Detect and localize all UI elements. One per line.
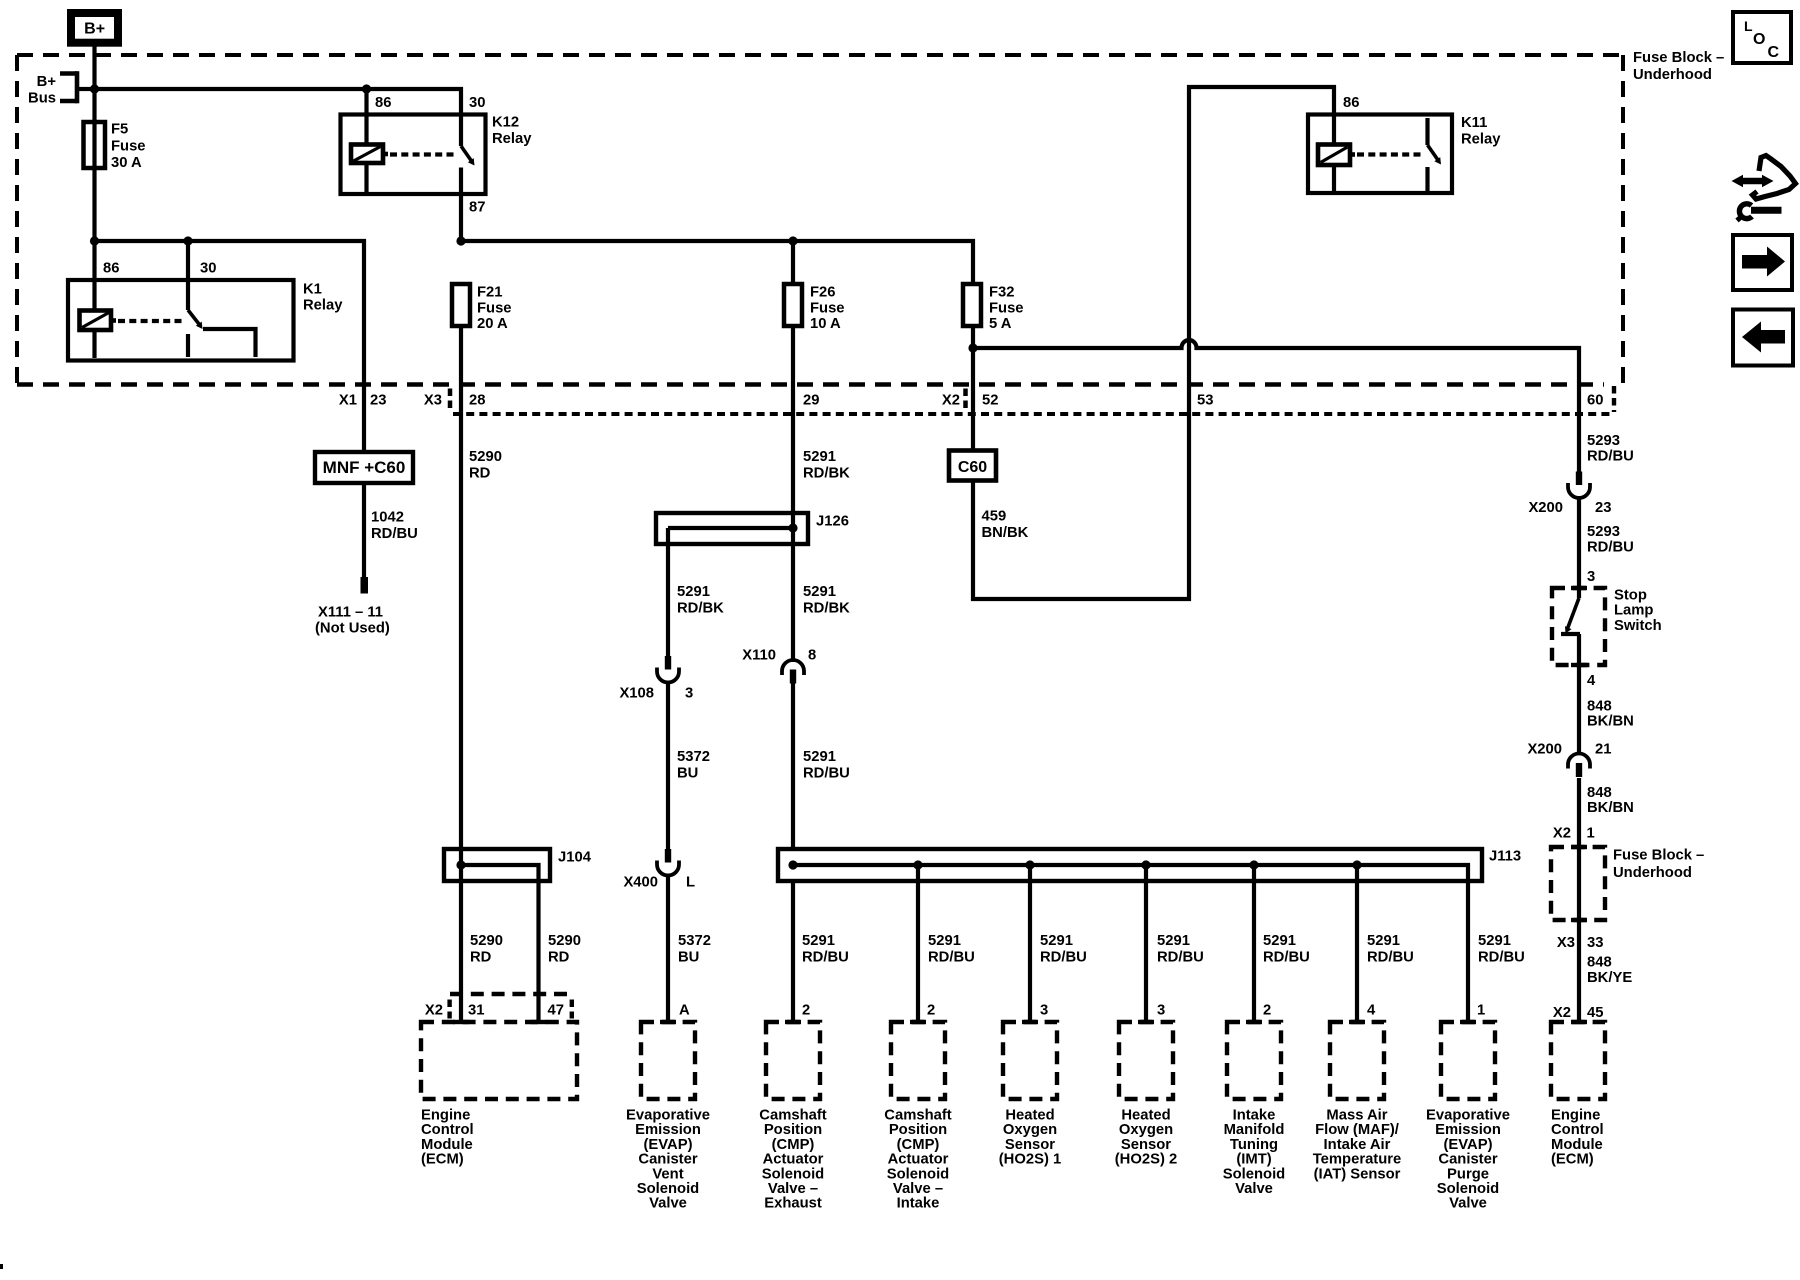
wire J113 to CMP exhaust valve xyxy=(791,881,795,1022)
junction F32 branch to right feed xyxy=(968,343,977,352)
svg-text:Flow (MAF)/: Flow (MAF)/ xyxy=(1315,1122,1399,1138)
svg-text:20 A: 20 A xyxy=(477,316,508,332)
pin 3 label stop lamp switch xyxy=(1587,569,1595,585)
label 5372 BU upper xyxy=(677,749,710,781)
label CMP actuator solenoid valve intake xyxy=(884,1108,951,1212)
svg-text:Fuse: Fuse xyxy=(810,300,845,316)
svg-text:47: 47 xyxy=(548,1003,564,1019)
svg-text:(IAT) Sensor: (IAT) Sensor xyxy=(1314,1166,1401,1182)
svg-text:52: 52 xyxy=(982,393,998,409)
svg-text:BK/BN: BK/BN xyxy=(1587,714,1634,730)
svg-text:L: L xyxy=(1744,18,1753,34)
svg-text:(ECM): (ECM) xyxy=(1551,1152,1594,1168)
icon arrow right box xyxy=(1733,235,1792,290)
svg-text:Camshaft: Camshaft xyxy=(884,1108,951,1124)
pin 30 label K1 xyxy=(200,261,216,277)
splice pack J104 xyxy=(444,849,592,881)
svg-text:Lamp: Lamp xyxy=(1614,603,1653,619)
svg-text:RD: RD xyxy=(548,949,570,965)
relay K11 dashed link xyxy=(1357,152,1423,156)
relay K11 switch xyxy=(1428,118,1442,192)
wire J126 internal bus xyxy=(668,526,793,530)
page speck artifact bottom left xyxy=(0,1264,3,1269)
pin 2 label CMP exhaust xyxy=(802,1003,810,1019)
icon wrench with double arrow xyxy=(1732,156,1796,221)
svg-text:5290: 5290 xyxy=(548,933,581,949)
label K11 Relay xyxy=(1461,115,1501,147)
terminal 53 label xyxy=(1197,393,1213,409)
svg-text:RD/BU: RD/BU xyxy=(802,949,849,965)
svg-text:Position: Position xyxy=(764,1122,822,1138)
valve EVAP canister purge solenoid box xyxy=(1441,1020,1495,1099)
svg-text:Control: Control xyxy=(1551,1122,1604,1138)
svg-text:Underhood: Underhood xyxy=(1633,67,1712,83)
junction fuse bus at F21 xyxy=(456,236,465,245)
svg-text:3: 3 xyxy=(685,686,693,702)
svg-text:Module: Module xyxy=(1551,1137,1603,1153)
label Fuse Block - Underhood right xyxy=(1613,848,1704,882)
pin 30 label K12 xyxy=(469,95,485,111)
svg-text:45: 45 xyxy=(1587,1005,1603,1021)
label 848 BK/BN upper xyxy=(1587,699,1634,730)
wire F21 to J104 and ECM pin 31 xyxy=(459,326,463,1022)
svg-text:RD/BK: RD/BK xyxy=(803,465,850,481)
sensor HO2S2 box xyxy=(1119,1020,1173,1099)
svg-text:Valve: Valve xyxy=(1449,1196,1487,1212)
label 5293 RD/BU lower xyxy=(1587,524,1634,556)
svg-text:BK/YE: BK/YE xyxy=(1587,970,1632,986)
svg-text:Control: Control xyxy=(421,1122,474,1138)
svg-text:3: 3 xyxy=(1040,1003,1048,1019)
node B+ Bus bracket xyxy=(28,71,93,106)
svg-text:BN/BK: BN/BK xyxy=(982,525,1029,541)
junction J113 at MAF branch xyxy=(1352,860,1361,869)
svg-text:5291: 5291 xyxy=(928,933,961,949)
junction J113 at CMP intake branch xyxy=(913,860,922,869)
pin 3 label HO2S2 xyxy=(1157,1003,1165,1019)
wire F26 to J126 xyxy=(791,326,795,513)
svg-text:X3: X3 xyxy=(1557,935,1575,951)
svg-text:33: 33 xyxy=(1587,935,1603,951)
svg-text:Solenoid: Solenoid xyxy=(762,1166,824,1182)
relay K1 box xyxy=(68,280,294,361)
junction F5 bus at K1 pin 30 xyxy=(183,236,192,245)
svg-text:87: 87 xyxy=(469,200,485,216)
svg-text:Evaporative: Evaporative xyxy=(626,1108,710,1124)
svg-text:Actuator: Actuator xyxy=(888,1152,949,1168)
label 5291 RD/BK col2 xyxy=(803,584,850,616)
fuse block - underhood bottom connector row dashed line xyxy=(17,382,1604,386)
svg-text:F5: F5 xyxy=(111,122,128,138)
svg-text:10 A: 10 A xyxy=(810,316,841,332)
svg-text:Canister: Canister xyxy=(638,1152,697,1168)
terminal X2 label ECM xyxy=(425,1003,443,1019)
wire F32 feed to terminal 60 with hop over 459 wire xyxy=(973,340,1579,472)
junction J126 at 5291 wire xyxy=(788,523,797,532)
label K1 Relay xyxy=(303,282,343,314)
svg-text:Valve –: Valve – xyxy=(768,1181,818,1197)
terminal X2 label xyxy=(942,393,960,409)
wire J126 through xyxy=(791,513,795,544)
relay K1 switch blade xyxy=(188,310,203,329)
svg-text:5293: 5293 xyxy=(1587,433,1620,449)
svg-text:RD/BK: RD/BK xyxy=(803,600,850,616)
svg-text:86: 86 xyxy=(103,261,119,277)
svg-text:3: 3 xyxy=(1157,1003,1165,1019)
switch stop lamp xyxy=(1552,586,1662,752)
icon arrow left box xyxy=(1733,310,1793,366)
relay K11 coil xyxy=(1318,145,1355,166)
pin 1 label EVAP purge xyxy=(1477,1003,1485,1019)
svg-text:A: A xyxy=(679,1003,690,1019)
svg-text:848: 848 xyxy=(1587,699,1612,715)
svg-text:F26: F26 xyxy=(810,285,836,301)
wire F32 to C60 xyxy=(971,326,975,451)
wire 5372 BU X400 to EVAP vent valve xyxy=(666,874,670,1023)
svg-text:Switch: Switch xyxy=(1614,618,1662,634)
fuse block - underhood connector row dotted line xyxy=(453,412,1613,416)
svg-text:(CMP): (CMP) xyxy=(897,1137,940,1153)
relay K1 dashed link xyxy=(118,319,184,323)
wire J126 to X108 xyxy=(666,528,670,657)
svg-text:5 A: 5 A xyxy=(989,316,1012,332)
svg-text:23: 23 xyxy=(370,393,386,409)
connector C60 xyxy=(949,451,996,481)
relay K1 switch output xyxy=(188,329,256,357)
svg-text:60: 60 xyxy=(1587,393,1603,409)
svg-text:Fuse: Fuse xyxy=(989,300,1024,316)
relay K12 dashed link xyxy=(390,152,456,156)
svg-text:X200: X200 xyxy=(1528,500,1563,516)
label 5293 RD/BU upper xyxy=(1587,433,1634,465)
svg-text:Tuning: Tuning xyxy=(1230,1137,1278,1153)
relay K1 pin 30 wire xyxy=(186,241,190,310)
pin 4 label stop lamp switch xyxy=(1587,673,1596,689)
svg-text:5291: 5291 xyxy=(803,584,836,600)
terminal X3 label xyxy=(424,393,442,409)
svg-text:RD: RD xyxy=(470,949,492,965)
svg-text:RD/BU: RD/BU xyxy=(1587,540,1634,556)
wire J104 internal bus to pin 47 drop xyxy=(461,865,539,1022)
svg-text:Solenoid: Solenoid xyxy=(1223,1166,1285,1182)
svg-text:459: 459 xyxy=(982,509,1007,525)
label Fuse Block - Underhood xyxy=(1633,50,1724,83)
svg-text:X2: X2 xyxy=(1553,826,1571,842)
svg-text:86: 86 xyxy=(1343,95,1359,111)
svg-text:(Not Used): (Not Used) xyxy=(315,621,390,637)
svg-text:Sensor: Sensor xyxy=(1005,1137,1055,1153)
fuse F21 20 A xyxy=(452,284,512,332)
svg-text:5291: 5291 xyxy=(802,933,835,949)
label 1042 RD/BU xyxy=(371,510,418,542)
valve CMP actuator exhaust box xyxy=(766,1020,820,1099)
pin 2 label IMT xyxy=(1263,1003,1271,1019)
svg-text:RD/BU: RD/BU xyxy=(371,526,418,542)
svg-text:J126: J126 xyxy=(816,514,849,530)
terminal 23 label xyxy=(370,393,386,409)
svg-text:30 A: 30 A xyxy=(111,155,142,171)
svg-text:Bus: Bus xyxy=(28,91,56,107)
svg-text:RD/BU: RD/BU xyxy=(1263,949,1310,965)
svg-text:Intake Air: Intake Air xyxy=(1324,1137,1391,1153)
wire J126 to X110 xyxy=(791,544,795,662)
svg-text:5290: 5290 xyxy=(470,933,503,949)
relay K12 switch xyxy=(461,146,475,194)
svg-text:2: 2 xyxy=(927,1003,935,1019)
fuse block - underhood border right xyxy=(1621,55,1625,383)
svg-text:30: 30 xyxy=(200,261,216,277)
svg-text:Oxygen: Oxygen xyxy=(1119,1122,1173,1138)
svg-text:MNF +C60: MNF +C60 xyxy=(323,458,406,477)
svg-text:Stop: Stop xyxy=(1614,588,1647,604)
label 5291 RD/BU b3 xyxy=(1040,933,1087,965)
label EVAP canister vent solenoid valve xyxy=(626,1108,710,1212)
svg-text:C: C xyxy=(1768,44,1780,61)
label Engine Control Module ECM left xyxy=(421,1108,474,1168)
label heated oxygen sensor HO2S 2 xyxy=(1115,1108,1178,1168)
wire 5372 BU X108 to X400 xyxy=(666,681,670,850)
svg-text:J113: J113 xyxy=(1489,849,1521,865)
svg-text:Evaporative: Evaporative xyxy=(1426,1108,1510,1124)
svg-text:21: 21 xyxy=(1595,742,1611,758)
label 5291 RD/BU b2 xyxy=(928,933,975,965)
svg-text:2: 2 xyxy=(802,1003,810,1019)
splice pack J126 xyxy=(656,513,849,544)
relay K12 coil xyxy=(351,145,388,164)
svg-text:Engine: Engine xyxy=(1551,1108,1600,1124)
label 5291 RD/BU b7 xyxy=(1478,933,1525,965)
svg-text:Valve –: Valve – xyxy=(893,1181,943,1197)
terminal 28 label xyxy=(469,393,485,409)
svg-text:848: 848 xyxy=(1587,955,1612,971)
svg-text:X3: X3 xyxy=(424,393,442,409)
svg-text:Valve: Valve xyxy=(1235,1181,1273,1197)
pin 86 label K12 xyxy=(375,95,391,111)
svg-text:Module: Module xyxy=(421,1137,473,1153)
junction J113 at HO2S2 branch xyxy=(1141,860,1150,869)
label 5291 RD/BU b6 xyxy=(1367,933,1414,965)
wire K12 pin 87 to fuse feed bus xyxy=(459,194,463,241)
junction J104 xyxy=(456,860,465,869)
svg-text:5291: 5291 xyxy=(677,584,710,600)
relay K12 box xyxy=(341,115,486,195)
power symbol B+ battery feed terminal xyxy=(71,13,118,43)
wire B+ terminal to B+ bus junction xyxy=(92,45,96,89)
svg-text:28: 28 xyxy=(469,393,485,409)
svg-text:86: 86 xyxy=(375,95,391,111)
connector X110 pin 8 xyxy=(742,648,816,684)
label CMP actuator solenoid valve exhaust xyxy=(759,1108,826,1212)
wire fuse feed bus K12-87 to F32 xyxy=(461,241,973,284)
svg-text:5291: 5291 xyxy=(803,449,836,465)
wire J113 internal bus xyxy=(793,865,1468,1022)
label 5291 RD/BU mid xyxy=(803,749,850,781)
connector MNF +C60 xyxy=(315,452,413,483)
svg-text:(ECM): (ECM) xyxy=(421,1152,464,1168)
junction B+ bus at K12 pin 86 tap xyxy=(362,84,371,93)
relay K1 pin 86 wire xyxy=(92,241,96,311)
svg-text:Solenoid: Solenoid xyxy=(1437,1181,1499,1197)
label 5291 RD/BU b5 xyxy=(1263,933,1310,965)
splice pack J113 xyxy=(778,849,1521,882)
svg-text:Mass Air: Mass Air xyxy=(1326,1108,1387,1124)
terminal X2 tick xyxy=(963,389,968,410)
svg-text:Canister: Canister xyxy=(1438,1152,1497,1168)
label 5291 RD/BU b1 xyxy=(802,933,849,965)
wire 5293 RD/BU to stop lamp switch xyxy=(1577,496,1581,598)
svg-text:K12: K12 xyxy=(492,115,519,131)
junction J113 at HO2S1 branch xyxy=(1025,860,1034,869)
icon LOC legend box xyxy=(1733,12,1791,63)
svg-text:Solenoid: Solenoid xyxy=(637,1181,699,1197)
svg-text:O: O xyxy=(1753,31,1765,48)
svg-text:(HO2S) 2: (HO2S) 2 xyxy=(1115,1152,1178,1168)
terminal X1 label xyxy=(339,393,357,409)
wire K12 pin 86 feed xyxy=(364,89,368,145)
svg-text:F32: F32 xyxy=(989,285,1015,301)
wire J113 to IMT valve xyxy=(1252,865,1256,1022)
svg-text:X2: X2 xyxy=(1553,1005,1571,1021)
svg-text:5291: 5291 xyxy=(1263,933,1296,949)
svg-text:(IMT): (IMT) xyxy=(1236,1152,1271,1168)
connector X200 pin 23 xyxy=(1528,472,1611,517)
label 5290 RD to pin 47 xyxy=(548,933,581,965)
label 5291 RD/BU b4 xyxy=(1157,933,1204,965)
svg-text:8: 8 xyxy=(808,648,816,664)
terminal X111 - 11 not used xyxy=(315,577,390,637)
junction fuse bus at F26 xyxy=(788,236,797,245)
svg-text:30: 30 xyxy=(469,95,485,111)
wire J113 to CMP intake valve xyxy=(916,865,920,1022)
fuse F5 30 A xyxy=(84,89,146,241)
svg-text:BU: BU xyxy=(677,765,698,781)
valve EVAP canister vent solenoid box xyxy=(641,1020,695,1099)
svg-text:848: 848 xyxy=(1587,785,1612,801)
terminal 29 label xyxy=(803,393,819,409)
sensor MAF IAT box xyxy=(1330,1020,1384,1099)
terminal X2 pin 1 label xyxy=(1553,826,1595,842)
svg-text:X1: X1 xyxy=(339,393,357,409)
svg-text:Relay: Relay xyxy=(1461,131,1501,147)
svg-text:Camshaft: Camshaft xyxy=(759,1108,826,1124)
svg-text:4: 4 xyxy=(1367,1003,1376,1019)
wire 459 BN/BK C60 to K11 pin 86 xyxy=(973,87,1334,599)
svg-text:Fuse Block –: Fuse Block – xyxy=(1613,848,1704,864)
svg-text:Engine: Engine xyxy=(421,1108,470,1124)
label heated oxygen sensor HO2S 1 xyxy=(999,1108,1062,1168)
svg-text:29: 29 xyxy=(803,393,819,409)
pin A label EVAP vent xyxy=(679,1003,690,1019)
wire 5291 RD/BU X110 to J113 xyxy=(791,684,795,850)
module ECM left box xyxy=(421,1020,577,1099)
connector X400 pin L xyxy=(623,849,695,891)
sensor HO2S1 box xyxy=(1003,1020,1057,1099)
wire MNF to X111-11 xyxy=(362,483,366,578)
svg-text:BK/BN: BK/BN xyxy=(1587,800,1634,816)
svg-text:BU: BU xyxy=(678,949,699,965)
svg-text:RD/BU: RD/BU xyxy=(1157,949,1204,965)
svg-text:(HO2S) 1: (HO2S) 1 xyxy=(999,1152,1062,1168)
wire fuse block 2 to ECM pin 45 xyxy=(1577,847,1581,1022)
svg-text:5372: 5372 xyxy=(678,933,711,949)
svg-text:B+: B+ xyxy=(37,74,57,90)
pin 87 label K12 xyxy=(469,200,485,216)
svg-text:Fuse: Fuse xyxy=(477,300,512,316)
junction J113 at CMP exhaust branch xyxy=(788,860,797,869)
terminal 52 label xyxy=(982,393,998,409)
terminal 47 label xyxy=(548,1003,564,1019)
valve CMP actuator intake box xyxy=(891,1020,945,1099)
relay K11 coil wire to box bottom xyxy=(1332,165,1336,192)
svg-text:K11: K11 xyxy=(1461,115,1487,131)
connector strip ECM X2 xyxy=(450,994,573,1019)
svg-text:L: L xyxy=(686,875,695,891)
label 5372 BU lower xyxy=(678,933,711,965)
svg-text:2: 2 xyxy=(1263,1003,1271,1019)
svg-text:Emission: Emission xyxy=(1435,1122,1501,1138)
svg-text:RD/BU: RD/BU xyxy=(928,949,975,965)
wire B+ bus to K12 pin 30 xyxy=(95,89,462,146)
relay K1 coil xyxy=(80,311,117,331)
svg-text:23: 23 xyxy=(1595,500,1611,516)
svg-text:5290: 5290 xyxy=(469,449,502,465)
svg-text:X111 – 11: X111 – 11 xyxy=(318,605,383,621)
wire J113 to HO2S1 xyxy=(1028,865,1032,1022)
svg-text:Vent: Vent xyxy=(652,1166,683,1182)
fuse block - underhood bottom right step dashes xyxy=(1612,386,1616,412)
svg-text:Temperature: Temperature xyxy=(1313,1152,1402,1168)
svg-text:C60: C60 xyxy=(958,459,987,476)
svg-text:B+: B+ xyxy=(84,21,105,38)
terminal 60 label xyxy=(1587,393,1603,409)
pin 3 label HO2S1 xyxy=(1040,1003,1048,1019)
label 5290 RD to pin 31 xyxy=(470,933,503,965)
svg-text:F21: F21 xyxy=(477,285,503,301)
fuse F32 5 A xyxy=(963,284,1024,332)
svg-text:Underhood: Underhood xyxy=(1613,865,1692,881)
svg-text:X108: X108 xyxy=(619,686,654,702)
pin 86 label K11 xyxy=(1343,95,1359,111)
terminal X3 pin 33 label xyxy=(1557,935,1604,951)
pin 2 label CMP intake xyxy=(927,1003,935,1019)
svg-text:Position: Position xyxy=(889,1122,947,1138)
svg-text:X2: X2 xyxy=(942,393,960,409)
label 459 BN/BK xyxy=(982,509,1029,541)
wire 848 BK/BN to fuse block 2 xyxy=(1577,778,1581,847)
relay K1 coil wire to box bottom xyxy=(92,330,96,358)
svg-text:Solenoid: Solenoid xyxy=(887,1166,949,1182)
svg-text:5291: 5291 xyxy=(1157,933,1190,949)
svg-text:Sensor: Sensor xyxy=(1121,1137,1171,1153)
svg-text:K1: K1 xyxy=(303,282,322,298)
svg-text:X2: X2 xyxy=(425,1003,443,1019)
terminal 31 label xyxy=(468,1003,484,1019)
svg-text:Fuse: Fuse xyxy=(111,138,146,154)
junction B+ bus at F5 xyxy=(90,84,99,93)
svg-text:RD/BK: RD/BK xyxy=(677,600,724,616)
svg-text:1042: 1042 xyxy=(371,510,404,526)
svg-text:Manifold: Manifold xyxy=(1224,1122,1285,1138)
wire J113 to HO2S2 xyxy=(1144,865,1148,1022)
junction J113 at IMT branch xyxy=(1249,860,1258,869)
svg-text:(EVAP): (EVAP) xyxy=(643,1137,692,1153)
label 848 BK/BN lower xyxy=(1587,785,1634,816)
svg-text:X400: X400 xyxy=(623,875,658,891)
svg-text:RD/BU: RD/BU xyxy=(1367,949,1414,965)
label MAF IAT sensor xyxy=(1313,1108,1402,1183)
svg-text:(EVAP): (EVAP) xyxy=(1443,1137,1492,1153)
svg-text:Purge: Purge xyxy=(1447,1166,1489,1182)
